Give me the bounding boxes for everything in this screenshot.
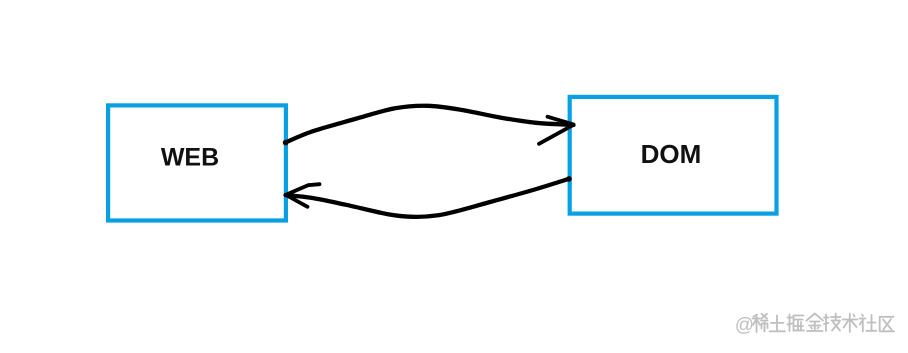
label DOM: [641, 139, 702, 169]
label WEB: [161, 143, 219, 171]
svg-text:@: @: [735, 315, 754, 336]
watermark char qu (区): [880, 317, 894, 332]
watermark char ji (技): [824, 314, 841, 332]
watermark char jue (掘): [788, 315, 805, 332]
box WEB: [108, 105, 286, 220]
watermark char shu (术): [843, 314, 858, 333]
wire arrow WEB to DOM (top curve): [283, 106, 574, 146]
svg-text:WEB: WEB: [161, 143, 219, 171]
box DOM: [570, 97, 777, 214]
watermark char she (社): [860, 315, 877, 332]
arrowhead at DOM (right-pointing): [539, 117, 574, 144]
watermark char tu (土): [770, 315, 786, 331]
watermark char jin (金): [807, 314, 824, 332]
watermark char xi (稀): [753, 314, 768, 332]
svg-text:DOM: DOM: [641, 139, 702, 169]
arrowhead at WEB (left-pointing): [286, 184, 320, 207]
wire arrow DOM to WEB (bottom curve): [286, 176, 572, 217]
watermark @稀土掘金技术社区 (drawn strokes, gray): [735, 314, 894, 337]
